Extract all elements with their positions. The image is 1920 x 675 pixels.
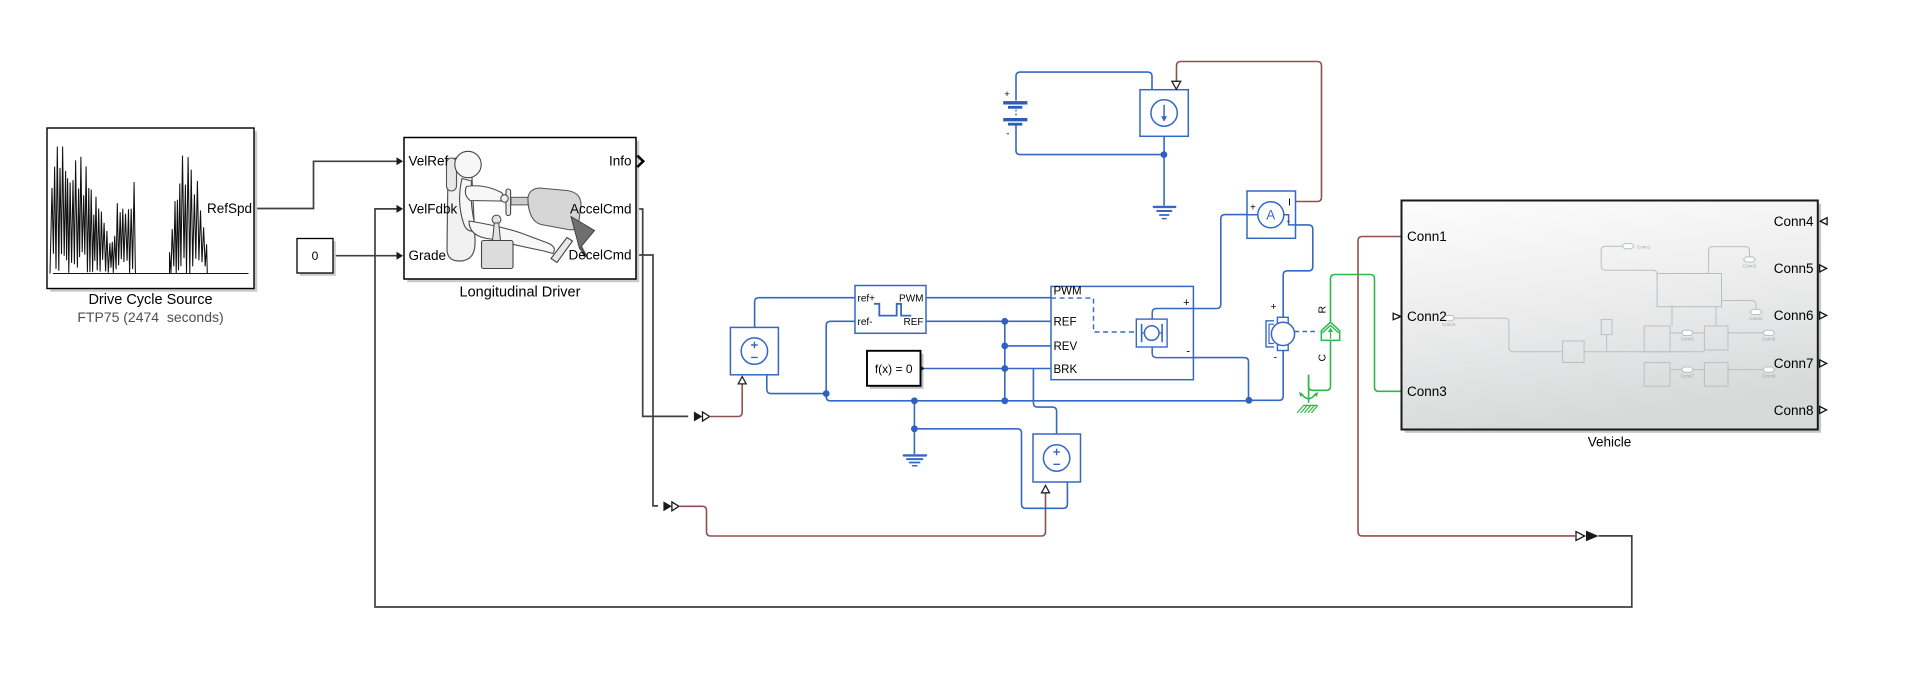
svg-text:Conn5: Conn5	[1774, 261, 1814, 276]
svg-text:Vehicle: Vehicle	[1588, 435, 1632, 450]
svg-text:Conn8: Conn8	[1774, 403, 1814, 418]
svg-text:I: I	[1288, 197, 1291, 209]
svg-text:-: -	[1274, 352, 1278, 364]
svg-text:ref+: ref+	[858, 293, 876, 304]
svg-text:f(x) = 0: f(x) = 0	[875, 362, 913, 376]
svg-text:Conn4: Conn4	[1774, 214, 1814, 229]
svg-text:+: +	[1270, 301, 1276, 313]
svg-text:REF: REF	[1054, 316, 1077, 328]
svg-text:Conn4: Conn4	[1749, 316, 1763, 321]
svg-text:-: -	[1006, 129, 1009, 140]
svg-text:Longitudinal Driver: Longitudinal Driver	[460, 285, 581, 301]
svg-text:Conn6: Conn6	[1762, 337, 1776, 342]
svg-text:0: 0	[312, 249, 319, 263]
svg-text:VelFdbk: VelFdbk	[409, 202, 458, 217]
svg-text:Conn1: Conn1	[1407, 229, 1447, 244]
svg-text:VelRef: VelRef	[409, 154, 449, 169]
svg-text:+: +	[1183, 297, 1189, 309]
svg-text:Info: Info	[609, 154, 632, 169]
svg-text:Conn3: Conn3	[1407, 384, 1447, 399]
svg-text:Conn5: Conn5	[1681, 337, 1695, 342]
svg-text:Conn1: Conn1	[1637, 245, 1651, 250]
svg-text:REV: REV	[1054, 341, 1078, 353]
svg-text:C: C	[1317, 354, 1329, 362]
svg-text:REF: REF	[904, 317, 924, 328]
svg-text:-: -	[1287, 216, 1290, 226]
svg-text:DecelCmd: DecelCmd	[568, 248, 631, 263]
svg-text:Conn2: Conn2	[1407, 309, 1447, 324]
svg-text:Conn8: Conn8	[1762, 374, 1776, 379]
svg-text:RefSpd: RefSpd	[207, 201, 252, 216]
svg-text:BRK: BRK	[1054, 364, 1078, 376]
svg-text:Conn7: Conn7	[1681, 374, 1695, 379]
svg-text:Conn2: Conn2	[1743, 264, 1757, 269]
svg-text:+: +	[1004, 89, 1010, 100]
svg-text:FTP75 (2474 seconds): FTP75 (2474 seconds)	[77, 309, 223, 325]
svg-text:Grade: Grade	[409, 248, 447, 263]
svg-text:Drive Cycle Source: Drive Cycle Source	[88, 292, 212, 308]
svg-text:-: -	[1186, 346, 1190, 358]
svg-text:R: R	[1317, 306, 1329, 314]
svg-text:Conn6: Conn6	[1774, 308, 1814, 323]
svg-text:AccelCmd: AccelCmd	[570, 202, 632, 217]
svg-text:ref-: ref-	[858, 317, 873, 328]
svg-text:A: A	[1266, 208, 1275, 223]
svg-text:Conn7: Conn7	[1774, 356, 1814, 371]
svg-text:+: +	[1250, 203, 1256, 214]
svg-text:PWM: PWM	[1054, 286, 1082, 298]
svg-text:PWM: PWM	[899, 293, 923, 304]
